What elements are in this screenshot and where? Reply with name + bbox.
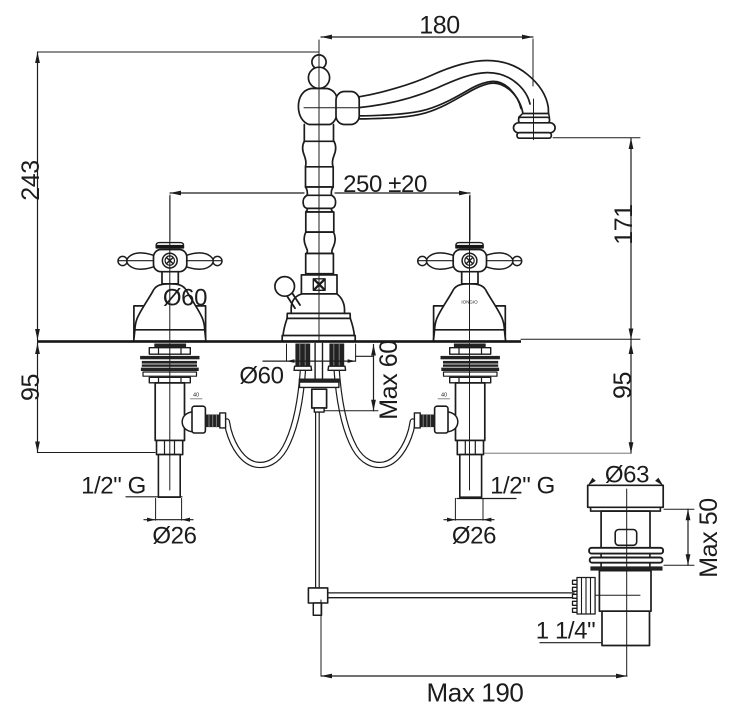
pop-up waste drain assembly [573,485,664,676]
column tube 2 [306,167,334,187]
right threaded shank [454,344,486,348]
escutcheon block with crest [301,275,337,294]
right bell lower edge [435,329,505,331]
right escutcheon box [434,306,506,341]
spout outlet ring upper [519,117,550,123]
bracket bar dark [299,379,341,382]
right washer bar 1 [441,356,500,359]
svg-text:1 1/4": 1 1/4" [536,618,596,645]
dim Max190 extension left [320,600,322,676]
svg-text:40: 40 [193,393,199,399]
dim 243 extension top [38,51,320,53]
svg-text:1/2" G: 1/2" G [81,473,146,500]
right screw slot marks [467,258,473,263]
pop-up lever ball [275,277,295,297]
dim Max50 extensions [664,509,694,565]
spout body ball small [312,55,326,69]
column joint line [304,140,333,142]
svg-text:180: 180 [419,12,460,40]
svg-text:95: 95 [609,372,637,399]
left cap dark seam [156,245,183,248]
column bead upper [306,187,334,195]
outlet centerline [533,99,535,140]
svg-text:1/2" G: 1/2" G [490,473,555,500]
left cross axis line [118,260,222,262]
column tube below collar [304,125,333,142]
spout main body [298,89,337,125]
rod coupler [308,588,327,603]
right screw boss outer [462,253,477,268]
svg-text:40: 40 [441,393,447,399]
dim Max50 line [687,509,689,565]
svg-text:Ø63: Ø63 [605,462,649,489]
right handle top cap [456,243,483,248]
center bell body [282,294,355,341]
left valve under deck [140,344,226,498]
guide block foot [314,408,324,412]
overflow window [615,530,637,546]
right flexible hose [337,369,413,465]
dim center Ø60 line [263,356,374,361]
right valve lower nut [457,441,483,455]
horizontal actuating rod [328,593,574,598]
svg-text:95: 95 [17,374,45,401]
left screw boss inner [165,256,174,265]
drain flange lip [591,507,661,511]
column tube 3 [306,212,334,232]
svg-text:Ø26: Ø26 [152,523,196,550]
spout assembly [275,40,555,341]
mounting deck surface [37,340,521,343]
crest emblem X [314,280,324,290]
spout centerline [318,40,320,340]
right cross axis line [418,260,522,262]
dim 250 extensions [170,195,470,240]
column bead lower [306,208,333,212]
dim Max60 line [373,345,375,411]
right handle stem [462,272,478,284]
left handle bell [134,284,206,341]
left escutcheon box [134,306,206,341]
left handle centerline [169,196,171,340]
dim 180 extension right [532,39,534,86]
pop-up vertical rod [316,412,320,588]
left washer bar 2 [142,361,197,364]
spout arm inner contour lower [359,81,521,116]
tailpiece [602,611,650,645]
right valve lower tube [460,455,482,498]
right washer bar 3 [443,364,498,366]
spout body axis line [304,107,359,109]
left cross end ball left [118,256,127,265]
left cross lobe left [127,253,155,269]
left bell lower edge [135,329,205,331]
left handle hub [154,250,187,272]
dim Ø26 right ticks [455,498,483,520]
left fitting dome [182,412,193,432]
spout collar joint [336,92,359,125]
column tube 4 [306,254,334,274]
left washer bar 1 [140,356,199,359]
left screw slot marks [167,258,173,263]
spout arm inner contour upper [359,73,530,108]
right cross end ball left [418,256,427,265]
right cap dark seam [456,245,483,248]
dim 180 line [321,36,533,38]
right tail foot [328,366,346,370]
dim Max190 line [321,675,627,677]
left washer bar 4 [141,368,199,371]
left handle top cap [156,243,183,248]
dim 95 right line [630,340,632,454]
center tails and pop-up [294,344,574,616]
right hose braid end [420,415,435,428]
left handle stem [162,272,178,284]
left tail foot [294,366,312,370]
svg-text:Max 190: Max 190 [427,678,524,708]
left hose collar [220,413,226,428]
left hose braid end [205,415,220,428]
dim Ø63 line with ticks [588,484,664,486]
dim 171 extension top [553,137,640,139]
left fitting nut [192,406,205,433]
dark washer slab [590,566,662,570]
left screw boss outer [162,253,177,268]
dim 171 extension deck [521,338,640,340]
dim Ø26 left line [144,519,193,521]
svg-text:Ø26: Ø26 [452,523,496,550]
right fitting dome [447,412,458,432]
right valve under deck [414,344,500,498]
spout outlet lower lip [517,133,551,139]
deck line [37,340,521,343]
spout body ball large [308,67,329,88]
center bell ring line 1 [291,312,344,314]
knurled adjuster nut [573,578,596,615]
right handle assembly [418,196,522,341]
svg-text:Ø60: Ø60 [239,363,283,390]
svg-text:Ø60: Ø60 [163,285,207,312]
spout outlet bulge [514,123,556,133]
center bell base line [283,335,354,337]
left cross end ball right [213,256,222,265]
right threaded tail [329,344,344,367]
left valve lower tube [158,455,180,498]
under-deck assemblies [140,344,574,616]
dim 95 left line [37,343,39,453]
column torus bulge [303,195,335,208]
svg-text:250 ±20: 250 ±20 [343,171,427,198]
right lock nut [450,377,491,383]
dim 95 left extension [38,452,156,454]
right fitting nut [435,406,448,433]
locknut plate 2 [590,558,663,563]
right shank nut [450,348,491,355]
left washer light band [143,372,197,376]
svg-text:171: 171 [610,204,638,245]
right valve centerline [469,344,471,491]
dim 95 right extension [485,452,632,454]
left flexible hose [227,369,303,465]
crest emblem square [313,279,325,291]
left valve centerline [169,344,171,491]
dim 250 line [170,192,470,194]
right valve body [456,383,485,441]
left lock nut [149,377,190,383]
right handle hub [453,250,486,272]
rod axis line [576,594,640,596]
column vase segment 2 [304,232,335,253]
right hose collar [414,413,420,428]
left shank nut [149,348,190,355]
pop-up lever arm [287,292,301,308]
column vase segment 1 [303,141,336,167]
right handle bell [433,284,505,341]
dim center Ø60 ticks [287,344,356,361]
left valve lower nut [157,441,183,455]
drain centerline [626,489,628,676]
dim Max60 extension [325,410,379,412]
left threaded shank [154,344,186,348]
right cross lobe right [485,253,513,269]
left cross lobe right [185,253,213,269]
dim Ø26 left ticks [156,498,182,520]
dim 171 line [630,138,632,340]
spout outlet step [519,113,550,117]
center bell ring line 2 [287,317,350,319]
right washer light band [444,372,498,376]
right washer bar 4 [441,368,499,371]
bracket bar light [300,382,339,387]
coupler pin [313,603,321,615]
drain flange [588,485,664,507]
left washer bar 3 [142,364,197,366]
drain lower body [599,571,651,612]
neck lines between plates [601,554,650,567]
left valve body [155,383,184,441]
svg-text:243: 243 [17,160,45,201]
svg-text:Max 60: Max 60 [375,340,403,420]
right washer bar 2 [443,361,498,364]
spout arm outline [359,61,549,119]
right screw boss inner [465,256,474,265]
dim 243 line [37,52,39,340]
svg-text:Max 50: Max 50 [695,498,723,578]
right cross end ball right [513,256,522,265]
dim Ø26 right line [444,519,494,521]
left threaded tail [295,344,310,367]
pop-up rod guide block [312,389,327,408]
right handle centerline [469,196,471,340]
pop-up tube lines [315,344,322,379]
locknut plate 1 [589,548,663,554]
left handle assembly [118,196,222,341]
drain neck body [601,511,650,548]
right cross lobe left [427,253,455,269]
